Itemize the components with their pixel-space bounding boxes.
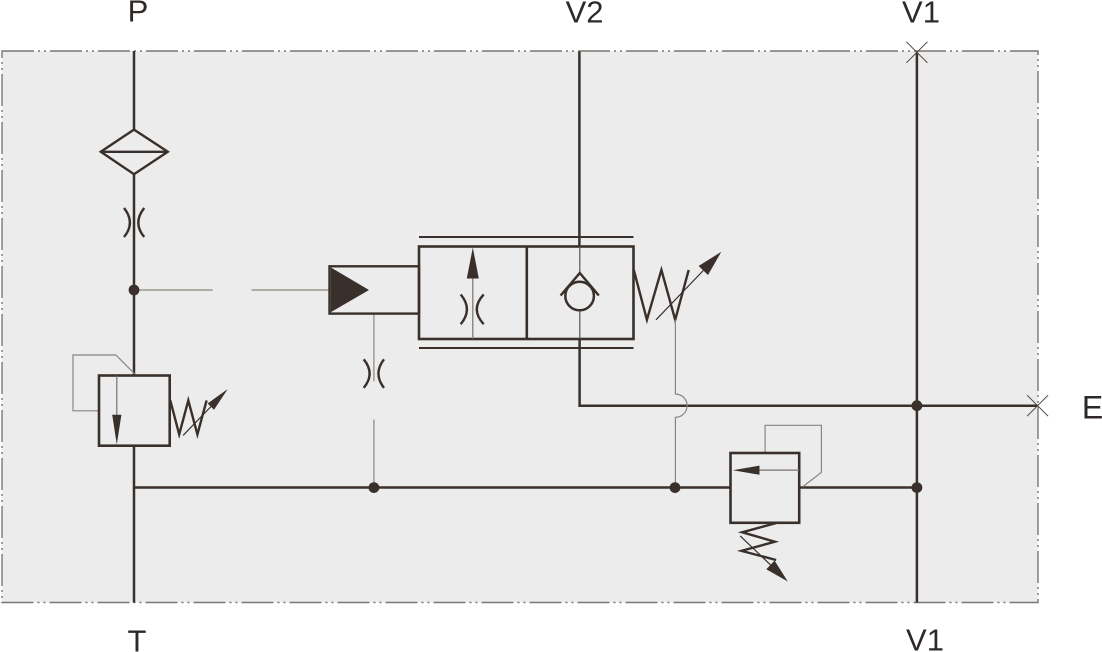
svg-text:V2: V2 [566,0,604,29]
svg-text:V1: V1 [902,0,940,29]
svg-text:P: P [128,0,149,29]
svg-text:V1: V1 [906,623,944,652]
svg-text:T: T [128,624,147,652]
svg-text:E: E [1082,389,1102,425]
